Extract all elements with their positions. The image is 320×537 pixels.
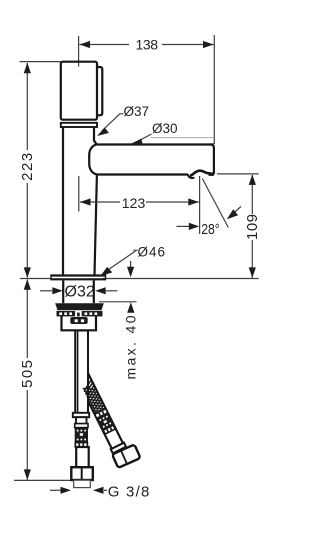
wire: dimension line 109 — [249, 174, 256, 278]
wire: dimension line 505 — [24, 279, 31, 480]
wire: faint line above spout tip — [151, 137, 215, 139]
spout right edge — [211, 145, 214, 175]
handle lever tab — [97, 67, 102, 115]
label leader: Ø46 — [100, 250, 137, 276]
wire: center axis segment at 123 dim — [78, 176, 80, 212]
wire: extension line hose end bottom left — [14, 479, 76, 481]
crimp ferrule angled — [95, 409, 116, 435]
svg-text:123: 123 — [122, 195, 146, 211]
escutcheon plate — [51, 275, 107, 281]
svg-text:G 3/8: G 3/8 — [108, 484, 150, 501]
wire: extension line escutcheon left — [20, 278, 51, 280]
label leader: Ø30 — [131, 134, 152, 146]
wire: center axis extension line at handle top — [78, 36, 80, 67]
max.40 upper arrow — [127, 261, 134, 277]
outer housing box — [62, 316, 97, 330]
collar under handle — [61, 123, 97, 127]
wire: vertical reference at aerator x — [199, 176, 201, 234]
max.40 lower arrow — [127, 302, 134, 313]
arrow to slanted line for 28deg — [227, 207, 241, 220]
tube below collar — [76, 417, 87, 424]
shank below escutcheon — [63, 280, 94, 303]
wire: dimension line 223 — [24, 63, 31, 278]
wire: 28 degree slanted line — [202, 179, 228, 228]
knurl block — [75, 428, 88, 443]
svg-text:Ø37: Ø37 — [124, 104, 150, 119]
hose socket block — [70, 317, 87, 324]
svg-text:138: 138 — [136, 37, 159, 53]
faucet handle — [61, 62, 97, 120]
mounting flange bar — [55, 303, 104, 310]
svg-text:Ø32: Ø32 — [65, 284, 95, 301]
vertical hose collar — [73, 413, 89, 417]
wire: extension line at handle top left — [20, 61, 61, 63]
angled hose tube band — [76, 372, 124, 451]
dimension Ø32 arrows — [40, 287, 118, 294]
angled hose nut — [112, 444, 140, 467]
svg-text:Ø30: Ø30 — [152, 121, 178, 136]
angled hose fittings — [80, 380, 115, 434]
wire: extension line nut top right — [99, 301, 137, 303]
dimension G3/8 arrows — [50, 487, 107, 494]
tube above bottom nut — [76, 447, 89, 467]
vertical hose — [75, 331, 88, 414]
wire: extension line escutcheon bottom right — [103, 278, 259, 280]
band 2 with ticks — [75, 443, 87, 447]
svg-text:28°: 28° — [201, 221, 220, 238]
svg-text:505: 505 — [19, 360, 36, 388]
castellated lock nut — [57, 311, 103, 316]
braid pattern on angled hose — [81, 381, 108, 420]
svg-text:223: 223 — [19, 153, 36, 181]
threaded end G3/8 — [74, 480, 91, 487]
wire: dimension line 123 — [80, 198, 199, 205]
arrow to vertical line for 28deg — [177, 223, 200, 230]
wire: extension line spout bottom right — [217, 173, 259, 175]
band — [75, 424, 88, 428]
faucet body and spout outline — [63, 127, 214, 274]
svg-text:109: 109 — [244, 214, 261, 240]
label leader: Ø37 — [97, 114, 124, 136]
aerator at spout tip — [187, 171, 214, 178]
svg-text:Ø46: Ø46 — [138, 245, 166, 260]
wire: dimension line 138 — [80, 41, 214, 48]
bottom hex nut — [71, 467, 93, 480]
angled hose collar — [111, 443, 126, 454]
wire: right extension line of 138 (spout tip) — [213, 35, 215, 144]
